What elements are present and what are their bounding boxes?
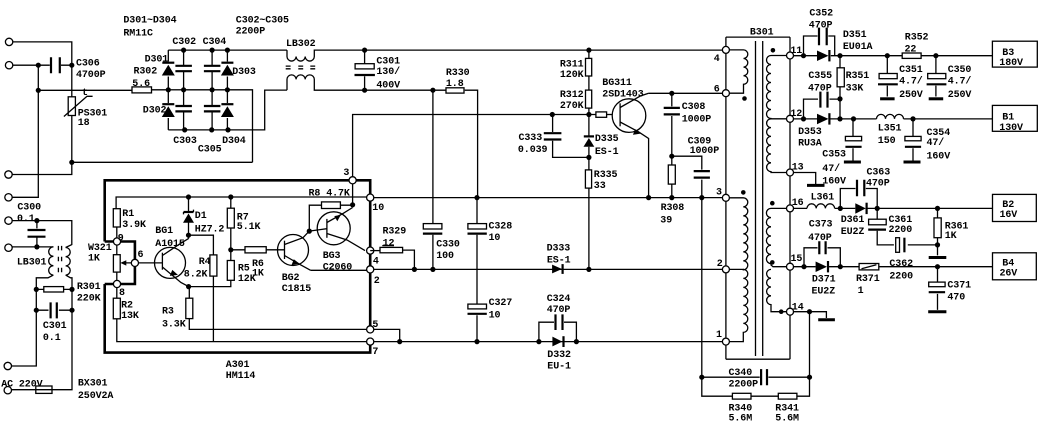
svg-text:3.9K: 3.9K bbox=[122, 220, 146, 231]
svg-text:C353: C353 bbox=[822, 149, 846, 160]
svg-text:D361: D361 bbox=[841, 215, 865, 226]
svg-text:LB301: LB301 bbox=[17, 258, 47, 269]
svg-text:D301~D304: D301~D304 bbox=[123, 16, 176, 27]
svg-text:C301: C301 bbox=[43, 321, 67, 332]
svg-text:R330: R330 bbox=[446, 68, 470, 79]
svg-text:C327: C327 bbox=[489, 298, 513, 309]
svg-text:R312: R312 bbox=[560, 90, 584, 101]
svg-text:2SD1403: 2SD1403 bbox=[602, 90, 643, 101]
svg-text:39: 39 bbox=[660, 215, 672, 226]
svg-text:12: 12 bbox=[383, 238, 395, 249]
svg-text:C303: C303 bbox=[173, 136, 197, 147]
svg-text:C355: C355 bbox=[808, 71, 832, 82]
svg-text:7: 7 bbox=[372, 347, 378, 358]
svg-text:10: 10 bbox=[489, 233, 501, 244]
svg-text:10: 10 bbox=[489, 311, 501, 322]
svg-text:4.7/: 4.7/ bbox=[899, 75, 923, 87]
svg-text:15: 15 bbox=[791, 254, 803, 265]
svg-text:1: 1 bbox=[858, 286, 864, 297]
svg-text:HM114: HM114 bbox=[226, 371, 256, 382]
svg-text:D351: D351 bbox=[843, 30, 867, 41]
svg-text:4.7/: 4.7/ bbox=[948, 75, 972, 87]
svg-text:0.1: 0.1 bbox=[17, 214, 35, 225]
svg-text:C305: C305 bbox=[198, 145, 222, 156]
svg-text:L361: L361 bbox=[811, 192, 835, 203]
svg-text:47/: 47/ bbox=[822, 163, 840, 175]
svg-text:2200: 2200 bbox=[889, 225, 913, 236]
svg-text:R5: R5 bbox=[238, 263, 250, 274]
svg-text:C333: C333 bbox=[519, 133, 543, 144]
svg-text:9: 9 bbox=[118, 234, 124, 245]
svg-text:R2: R2 bbox=[121, 300, 133, 311]
svg-text:220K: 220K bbox=[77, 294, 101, 305]
svg-text:C328: C328 bbox=[489, 221, 513, 232]
svg-text:8: 8 bbox=[119, 288, 125, 299]
svg-text:250V2A: 250V2A bbox=[78, 391, 114, 402]
svg-text:R4: R4 bbox=[199, 257, 211, 268]
svg-text:C304: C304 bbox=[203, 37, 227, 48]
svg-text:RU3A: RU3A bbox=[798, 138, 822, 149]
svg-text:B1: B1 bbox=[1002, 112, 1014, 123]
svg-text:R371: R371 bbox=[856, 274, 880, 285]
svg-text:2200P: 2200P bbox=[729, 380, 759, 391]
svg-text:RM11C: RM11C bbox=[123, 28, 153, 39]
svg-text:C371: C371 bbox=[947, 281, 971, 292]
svg-text:R329: R329 bbox=[383, 227, 407, 238]
svg-text:BG3: BG3 bbox=[323, 251, 341, 262]
svg-text:BG1: BG1 bbox=[155, 226, 173, 237]
svg-text:R351: R351 bbox=[846, 71, 870, 82]
svg-text:16V: 16V bbox=[1000, 210, 1018, 221]
svg-text:D335: D335 bbox=[595, 134, 619, 145]
svg-text:470P: 470P bbox=[547, 305, 571, 316]
svg-text:400V: 400V bbox=[376, 80, 400, 91]
svg-text:LB302: LB302 bbox=[286, 39, 316, 50]
svg-text:R1: R1 bbox=[122, 209, 134, 220]
svg-text:ES-1: ES-1 bbox=[595, 147, 619, 158]
svg-text:C351: C351 bbox=[899, 65, 923, 76]
svg-text:AC 220V: AC 220V bbox=[1, 379, 42, 390]
svg-text:R352: R352 bbox=[905, 33, 929, 44]
svg-text:10: 10 bbox=[372, 203, 384, 214]
svg-text:470: 470 bbox=[947, 293, 965, 304]
svg-text:C1815: C1815 bbox=[282, 284, 312, 295]
svg-text:0.1: 0.1 bbox=[43, 333, 61, 344]
svg-text:1K: 1K bbox=[945, 231, 957, 242]
svg-text:6: 6 bbox=[714, 85, 720, 96]
svg-text:2200: 2200 bbox=[889, 271, 913, 282]
svg-text:250V: 250V bbox=[948, 90, 972, 101]
svg-text:C362: C362 bbox=[889, 259, 913, 270]
svg-text:t: t bbox=[82, 88, 88, 99]
svg-text:3.3K: 3.3K bbox=[162, 319, 186, 330]
svg-text:5.1K: 5.1K bbox=[237, 222, 261, 233]
svg-text:1.8: 1.8 bbox=[446, 79, 464, 90]
svg-text:3: 3 bbox=[343, 168, 349, 179]
svg-text:2: 2 bbox=[717, 259, 723, 270]
svg-text:D304: D304 bbox=[222, 136, 246, 147]
svg-text:C363: C363 bbox=[867, 167, 891, 178]
svg-text:1000P: 1000P bbox=[682, 114, 712, 125]
svg-text:100: 100 bbox=[436, 251, 454, 262]
svg-text:470P: 470P bbox=[809, 21, 833, 32]
svg-text:EU2Z: EU2Z bbox=[841, 227, 865, 238]
svg-text:0.039: 0.039 bbox=[518, 145, 548, 156]
svg-text:ES-1: ES-1 bbox=[547, 255, 571, 266]
svg-text:1K: 1K bbox=[252, 269, 264, 280]
svg-text:5.6M: 5.6M bbox=[775, 413, 799, 424]
svg-text:A301: A301 bbox=[226, 360, 250, 371]
svg-text:4: 4 bbox=[714, 54, 720, 65]
svg-text:C352: C352 bbox=[809, 8, 833, 19]
svg-text:250V: 250V bbox=[899, 90, 923, 101]
svg-text:1000P: 1000P bbox=[690, 146, 720, 157]
svg-text:22: 22 bbox=[905, 45, 917, 56]
svg-text:D332: D332 bbox=[547, 350, 571, 361]
svg-text:4: 4 bbox=[373, 256, 379, 267]
svg-text:R301: R301 bbox=[77, 282, 101, 293]
svg-text:1K: 1K bbox=[88, 253, 100, 264]
svg-text:C300: C300 bbox=[17, 203, 41, 214]
svg-text:2200P: 2200P bbox=[236, 27, 266, 38]
svg-text:D333: D333 bbox=[547, 243, 571, 254]
svg-text:18: 18 bbox=[78, 118, 90, 129]
svg-text:D301: D301 bbox=[145, 55, 169, 66]
svg-text:C306: C306 bbox=[76, 59, 100, 70]
svg-text:270K: 270K bbox=[560, 101, 584, 112]
svg-text:C373: C373 bbox=[809, 220, 833, 231]
svg-text:1: 1 bbox=[716, 330, 722, 341]
svg-text:R335: R335 bbox=[594, 170, 618, 181]
svg-text:150: 150 bbox=[878, 136, 896, 147]
svg-text:470P: 470P bbox=[808, 83, 832, 94]
svg-text:R308: R308 bbox=[661, 203, 685, 214]
svg-text:BX301: BX301 bbox=[78, 378, 108, 389]
svg-text:B301: B301 bbox=[750, 27, 774, 38]
svg-text:6: 6 bbox=[138, 250, 144, 261]
svg-text:BG311: BG311 bbox=[602, 78, 632, 89]
svg-text:EU01A: EU01A bbox=[843, 42, 873, 53]
svg-text:R3: R3 bbox=[162, 307, 174, 318]
svg-text:2: 2 bbox=[374, 276, 380, 287]
svg-text:L351: L351 bbox=[878, 124, 902, 135]
svg-text:470P: 470P bbox=[866, 179, 890, 190]
svg-text:BG2: BG2 bbox=[282, 273, 300, 284]
svg-text:C330: C330 bbox=[436, 240, 460, 251]
svg-text:C324: C324 bbox=[547, 294, 571, 305]
svg-text:C2060: C2060 bbox=[323, 262, 353, 273]
svg-text:120K: 120K bbox=[560, 70, 584, 81]
svg-text:D371: D371 bbox=[812, 275, 836, 286]
svg-text:16: 16 bbox=[792, 198, 804, 209]
svg-text:HZ7.2: HZ7.2 bbox=[195, 225, 225, 236]
svg-text:130/: 130/ bbox=[376, 66, 400, 78]
svg-text:R311: R311 bbox=[560, 60, 584, 71]
svg-text:C350: C350 bbox=[948, 65, 972, 76]
svg-text:R8 4.7K: R8 4.7K bbox=[309, 188, 350, 199]
svg-text:5.6M: 5.6M bbox=[729, 413, 753, 424]
svg-text:EU2Z: EU2Z bbox=[812, 287, 836, 298]
svg-text:D302: D302 bbox=[143, 106, 167, 117]
svg-text:180V: 180V bbox=[999, 58, 1023, 69]
svg-text:33: 33 bbox=[594, 181, 606, 192]
svg-text:C301: C301 bbox=[376, 57, 400, 68]
svg-text:4700P: 4700P bbox=[76, 70, 106, 81]
svg-text:C302: C302 bbox=[172, 37, 196, 48]
svg-text:D353: D353 bbox=[798, 127, 822, 138]
svg-text:A1015: A1015 bbox=[155, 239, 185, 250]
svg-text:R302: R302 bbox=[134, 67, 158, 78]
svg-text:47/: 47/ bbox=[927, 137, 945, 149]
svg-text:160V: 160V bbox=[822, 176, 846, 187]
svg-text:EU-1: EU-1 bbox=[547, 362, 571, 373]
svg-text:470P: 470P bbox=[808, 233, 832, 244]
svg-text:D1: D1 bbox=[195, 211, 207, 222]
svg-text:26V: 26V bbox=[1000, 269, 1018, 280]
svg-text:33K: 33K bbox=[846, 83, 864, 94]
svg-text:5.6: 5.6 bbox=[132, 79, 150, 90]
svg-text:130V: 130V bbox=[999, 123, 1023, 134]
svg-text:3: 3 bbox=[716, 188, 722, 199]
svg-text:C340: C340 bbox=[729, 368, 753, 379]
svg-text:160V: 160V bbox=[927, 152, 951, 163]
svg-text:C308: C308 bbox=[682, 102, 706, 113]
svg-text:8.2K: 8.2K bbox=[184, 270, 208, 281]
svg-text:C302~C305: C302~C305 bbox=[236, 16, 289, 27]
svg-text:D303: D303 bbox=[232, 67, 256, 78]
svg-text:13K: 13K bbox=[121, 311, 139, 322]
